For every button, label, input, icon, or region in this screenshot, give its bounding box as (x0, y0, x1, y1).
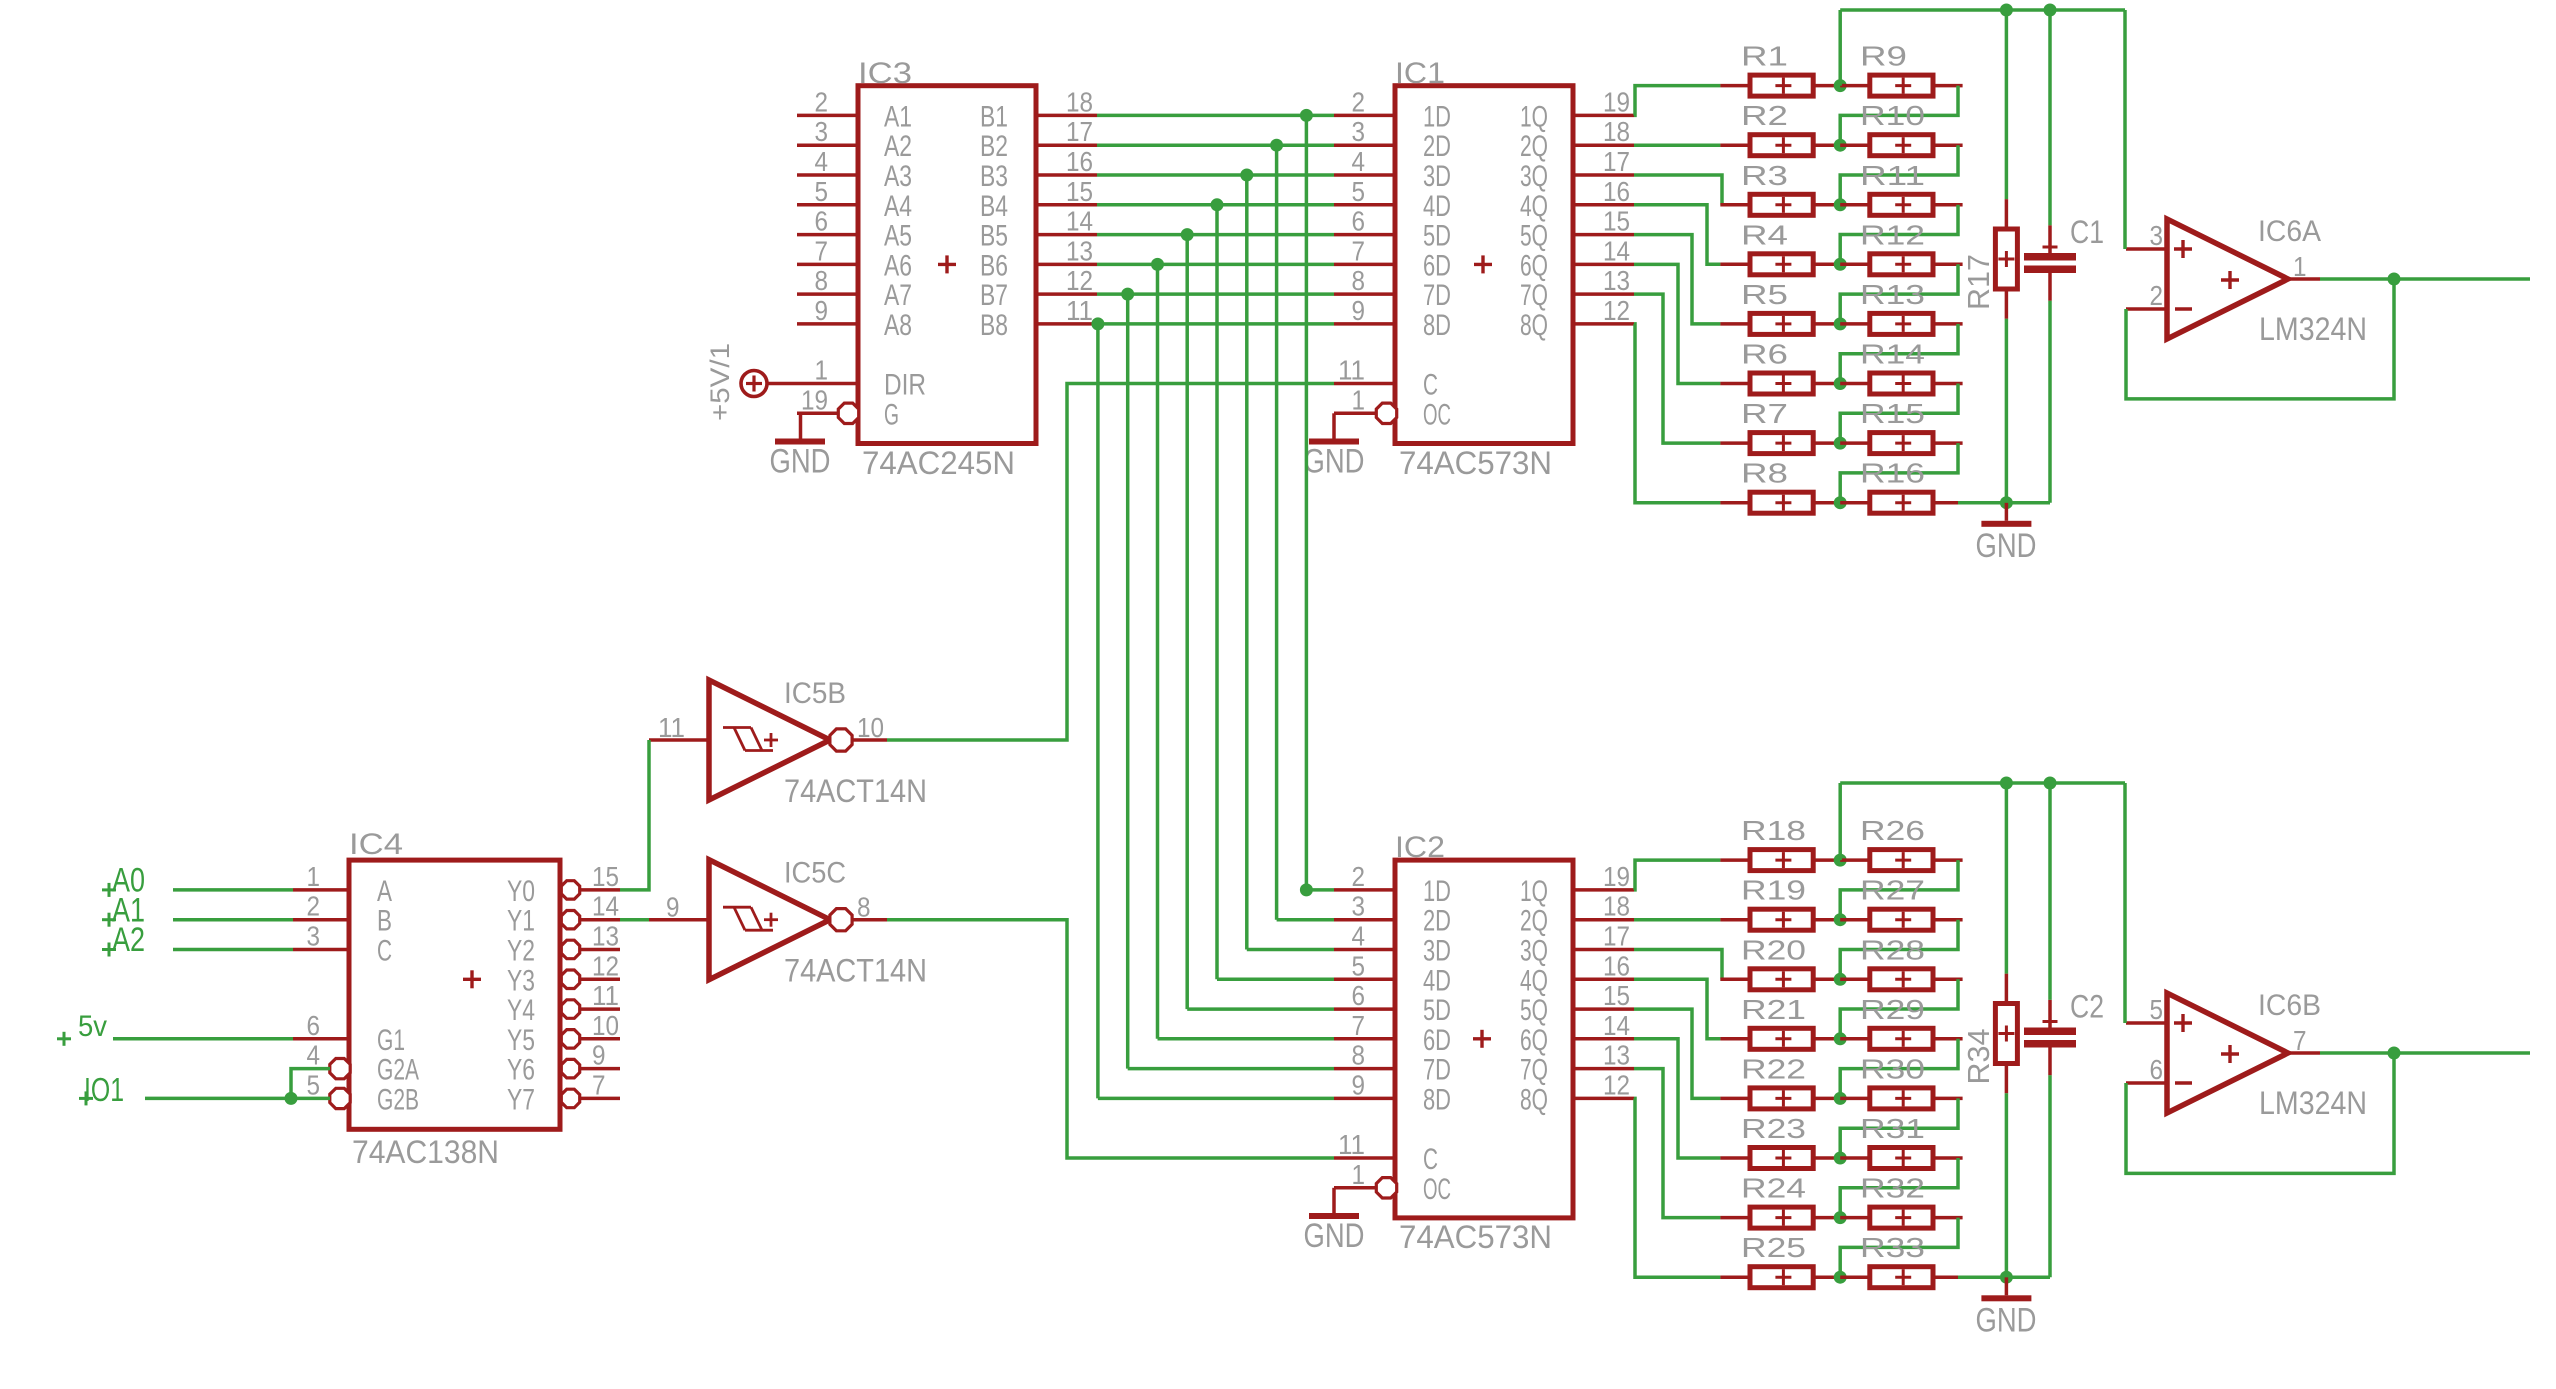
svg-text:2: 2 (1352, 86, 1366, 117)
svg-text:B4: B4 (980, 190, 1008, 223)
svg-text:7: 7 (1352, 1010, 1366, 1041)
svg-text:1Q: 1Q (1520, 875, 1548, 908)
svg-text:R18: R18 (1741, 815, 1806, 846)
svg-text:GND: GND (1304, 443, 1365, 481)
svg-text:A4: A4 (884, 190, 912, 223)
svg-text:R31: R31 (1860, 1113, 1925, 1144)
svg-text:6: 6 (2150, 1054, 2164, 1085)
svg-text:R15: R15 (1860, 398, 1925, 429)
svg-text:A: A (377, 875, 392, 908)
svg-text:12: 12 (592, 950, 619, 981)
svg-text:8: 8 (1352, 265, 1366, 296)
svg-text:11: 11 (1338, 1129, 1365, 1160)
svg-text:R21: R21 (1741, 994, 1806, 1025)
svg-text:6: 6 (1352, 980, 1366, 1011)
svg-text:Y1: Y1 (507, 905, 535, 938)
svg-text:GND: GND (770, 443, 831, 481)
svg-text:17: 17 (1603, 921, 1630, 952)
svg-text:OC: OC (1423, 1173, 1451, 1206)
svg-text:R32: R32 (1860, 1173, 1925, 1204)
svg-text:19: 19 (801, 384, 828, 415)
svg-text:13: 13 (1066, 235, 1093, 266)
svg-text:R7: R7 (1741, 398, 1788, 429)
svg-text:13: 13 (592, 921, 619, 952)
svg-text:R9: R9 (1860, 41, 1907, 72)
svg-text:16: 16 (1603, 176, 1630, 207)
svg-text:Y3: Y3 (507, 964, 535, 997)
svg-text:B: B (377, 905, 392, 938)
svg-text:7: 7 (2293, 1025, 2307, 1056)
svg-text:R4: R4 (1741, 219, 1788, 250)
svg-text:11: 11 (592, 980, 619, 1011)
svg-text:IC1: IC1 (1395, 57, 1445, 90)
svg-text:8: 8 (1352, 1040, 1366, 1071)
svg-text:4Q: 4Q (1520, 964, 1548, 997)
svg-text:IO1: IO1 (84, 1071, 124, 1108)
svg-text:19: 19 (1603, 86, 1630, 117)
svg-text:3: 3 (2150, 220, 2164, 251)
svg-text:6D: 6D (1423, 1024, 1451, 1057)
svg-text:B5: B5 (980, 220, 1008, 253)
svg-text:8D: 8D (1423, 1083, 1451, 1116)
svg-text:GND: GND (1304, 1217, 1365, 1255)
svg-text:4: 4 (307, 1040, 321, 1071)
svg-text:1: 1 (2293, 251, 2307, 282)
svg-text:1D: 1D (1423, 100, 1451, 133)
svg-text:15: 15 (1603, 980, 1630, 1011)
svg-text:4: 4 (815, 146, 829, 177)
svg-text:7: 7 (815, 235, 829, 266)
svg-text:Y7: Y7 (507, 1083, 535, 1116)
svg-text:IC6A: IC6A (2258, 215, 2321, 248)
svg-text:R34: R34 (1961, 1029, 1996, 1085)
svg-text:C: C (377, 935, 392, 968)
svg-text:R28: R28 (1860, 934, 1925, 965)
svg-text:3Q: 3Q (1520, 935, 1548, 968)
svg-text:R19: R19 (1741, 875, 1806, 906)
svg-text:G: G (884, 398, 899, 431)
svg-text:6: 6 (307, 1010, 321, 1041)
svg-text:11: 11 (1338, 355, 1365, 386)
svg-text:G2B: G2B (377, 1083, 419, 1116)
svg-text:R1: R1 (1741, 41, 1788, 72)
svg-text:3: 3 (307, 921, 321, 952)
svg-text:8Q: 8Q (1520, 309, 1548, 342)
svg-text:5: 5 (1352, 950, 1366, 981)
svg-text:9: 9 (1352, 1069, 1366, 1100)
svg-text:R3: R3 (1741, 160, 1788, 191)
svg-text:74AC245N: 74AC245N (862, 445, 1015, 481)
svg-text:15: 15 (1066, 176, 1093, 207)
svg-text:Y4: Y4 (507, 994, 535, 1027)
svg-text:OC: OC (1423, 398, 1451, 431)
svg-text:12: 12 (1603, 1069, 1630, 1100)
svg-text:15: 15 (1603, 206, 1630, 237)
svg-text:9: 9 (815, 295, 829, 326)
svg-text:4D: 4D (1423, 190, 1451, 223)
svg-text:R12: R12 (1860, 219, 1925, 250)
svg-text:6: 6 (1352, 206, 1366, 237)
svg-text:8: 8 (857, 892, 871, 923)
svg-text:A1: A1 (884, 100, 912, 133)
svg-text:R16: R16 (1860, 458, 1925, 489)
svg-text:19: 19 (1603, 861, 1630, 892)
svg-text:11: 11 (1066, 295, 1093, 326)
svg-text:8D: 8D (1423, 309, 1451, 342)
svg-text:R8: R8 (1741, 458, 1788, 489)
svg-text:5Q: 5Q (1520, 220, 1548, 253)
svg-text:10: 10 (857, 712, 884, 743)
svg-text:15: 15 (592, 861, 619, 892)
svg-text:2: 2 (2150, 280, 2164, 311)
svg-text:IC3: IC3 (858, 57, 912, 90)
svg-text:1: 1 (1352, 384, 1366, 415)
svg-text:B1: B1 (980, 100, 1008, 133)
svg-text:R6: R6 (1741, 339, 1788, 370)
svg-text:11: 11 (658, 712, 685, 743)
svg-text:8Q: 8Q (1520, 1083, 1548, 1116)
svg-text:14: 14 (1603, 1010, 1630, 1041)
svg-text:A5: A5 (884, 220, 912, 253)
svg-text:7Q: 7Q (1520, 1054, 1548, 1087)
svg-text:R14: R14 (1860, 339, 1925, 370)
svg-text:8: 8 (815, 265, 829, 296)
svg-text:R10: R10 (1860, 100, 1925, 131)
svg-text:74ACT14N: 74ACT14N (784, 773, 927, 809)
svg-text:3D: 3D (1423, 935, 1451, 968)
svg-text:2: 2 (1352, 861, 1366, 892)
svg-text:6D: 6D (1423, 249, 1451, 282)
svg-text:R5: R5 (1741, 279, 1788, 310)
svg-text:18: 18 (1603, 116, 1630, 147)
svg-text:A3: A3 (884, 160, 912, 193)
svg-text:1: 1 (1352, 1159, 1366, 1190)
svg-text:13: 13 (1603, 1040, 1630, 1071)
svg-text:14: 14 (1066, 206, 1093, 237)
svg-text:7Q: 7Q (1520, 279, 1548, 312)
svg-text:C: C (1423, 369, 1438, 402)
svg-text:A2: A2 (884, 130, 912, 163)
svg-text:74AC573N: 74AC573N (1399, 445, 1552, 481)
svg-text:7: 7 (592, 1069, 606, 1100)
svg-text:R11: R11 (1860, 160, 1925, 191)
svg-text:4Q: 4Q (1520, 190, 1548, 223)
svg-text:A8: A8 (884, 309, 912, 342)
svg-text:6Q: 6Q (1520, 1024, 1548, 1057)
svg-text:18: 18 (1066, 86, 1093, 117)
svg-text:5: 5 (815, 176, 829, 207)
svg-text:IC5C: IC5C (784, 857, 846, 890)
svg-text:5: 5 (307, 1069, 321, 1100)
svg-text:13: 13 (1603, 265, 1630, 296)
svg-text:IC2: IC2 (1395, 831, 1445, 864)
svg-text:9: 9 (1352, 295, 1366, 326)
svg-text:74ACT14N: 74ACT14N (784, 953, 927, 989)
svg-text:GND: GND (1976, 1301, 2037, 1339)
svg-text:7D: 7D (1423, 1054, 1451, 1087)
svg-text:R27: R27 (1860, 875, 1925, 906)
svg-text:9: 9 (666, 892, 680, 923)
svg-text:3D: 3D (1423, 160, 1451, 193)
svg-text:R22: R22 (1741, 1053, 1806, 1084)
svg-text:14: 14 (592, 891, 619, 922)
svg-text:A2: A2 (112, 921, 145, 959)
svg-text:2Q: 2Q (1520, 905, 1548, 938)
svg-text:3Q: 3Q (1520, 160, 1548, 193)
svg-text:G2A: G2A (377, 1054, 419, 1087)
svg-text:4: 4 (1352, 921, 1366, 952)
svg-text:5Q: 5Q (1520, 994, 1548, 1027)
svg-text:B6: B6 (980, 249, 1008, 282)
svg-text:2Q: 2Q (1520, 130, 1548, 163)
svg-text:R13: R13 (1860, 279, 1925, 310)
svg-text:2D: 2D (1423, 905, 1451, 938)
svg-text:4: 4 (1352, 146, 1366, 177)
svg-text:A6: A6 (884, 249, 912, 282)
svg-text:Y6: Y6 (507, 1054, 535, 1087)
svg-text:17: 17 (1603, 146, 1630, 177)
svg-text:5v: 5v (78, 1010, 107, 1043)
svg-text:16: 16 (1603, 950, 1630, 981)
svg-text:LM324N: LM324N (2259, 311, 2367, 347)
svg-text:14: 14 (1603, 235, 1630, 266)
svg-text:18: 18 (1603, 891, 1630, 922)
svg-text:17: 17 (1066, 116, 1093, 147)
svg-text:C2: C2 (2070, 989, 2104, 1025)
svg-text:GND: GND (1976, 527, 2037, 565)
svg-text:1: 1 (815, 355, 829, 386)
svg-text:5: 5 (1352, 176, 1366, 207)
svg-text:R30: R30 (1860, 1053, 1925, 1084)
svg-text:R2: R2 (1741, 100, 1788, 131)
svg-text:74AC138N: 74AC138N (352, 1134, 499, 1170)
svg-text:LM324N: LM324N (2259, 1085, 2367, 1121)
svg-text:R29: R29 (1860, 994, 1925, 1025)
svg-text:+5V/1: +5V/1 (705, 343, 735, 421)
svg-text:3: 3 (1352, 116, 1366, 147)
svg-text:1: 1 (307, 861, 321, 892)
svg-text:Y2: Y2 (507, 935, 535, 968)
svg-text:Y0: Y0 (507, 875, 535, 908)
svg-text:16: 16 (1066, 146, 1093, 177)
svg-text:A7: A7 (884, 279, 912, 312)
svg-text:5D: 5D (1423, 994, 1451, 1027)
svg-text:2D: 2D (1423, 130, 1451, 163)
svg-text:2: 2 (815, 86, 829, 117)
svg-text:B8: B8 (980, 309, 1008, 342)
svg-text:IC5B: IC5B (784, 677, 846, 710)
svg-text:5: 5 (2150, 994, 2164, 1025)
svg-text:Y5: Y5 (507, 1024, 535, 1057)
svg-text:IC6B: IC6B (2258, 989, 2321, 1022)
svg-text:G1: G1 (377, 1024, 405, 1057)
svg-text:B7: B7 (980, 279, 1008, 312)
svg-text:6: 6 (815, 206, 829, 237)
svg-text:R24: R24 (1741, 1173, 1806, 1204)
svg-text:3: 3 (815, 116, 829, 147)
svg-text:IC4: IC4 (349, 828, 403, 861)
svg-text:74AC573N: 74AC573N (1399, 1219, 1552, 1255)
svg-text:4D: 4D (1423, 964, 1451, 997)
svg-text:12: 12 (1066, 265, 1093, 296)
svg-text:C1: C1 (2070, 214, 2104, 250)
svg-text:R23: R23 (1741, 1113, 1806, 1144)
svg-text:B3: B3 (980, 160, 1008, 193)
svg-text:6Q: 6Q (1520, 249, 1548, 282)
svg-text:R26: R26 (1860, 815, 1925, 846)
svg-text:1D: 1D (1423, 875, 1451, 908)
svg-text:2: 2 (307, 891, 321, 922)
svg-text:3: 3 (1352, 891, 1366, 922)
svg-text:C: C (1423, 1143, 1438, 1176)
svg-text:1Q: 1Q (1520, 100, 1548, 133)
svg-text:5D: 5D (1423, 220, 1451, 253)
svg-text:B2: B2 (980, 130, 1008, 163)
svg-text:7D: 7D (1423, 279, 1451, 312)
svg-text:R25: R25 (1741, 1232, 1806, 1263)
svg-text:R17: R17 (1961, 254, 1996, 310)
svg-text:9: 9 (592, 1040, 606, 1071)
svg-text:10: 10 (592, 1010, 619, 1041)
svg-text:7: 7 (1352, 235, 1366, 266)
svg-text:R20: R20 (1741, 934, 1806, 965)
svg-text:DIR: DIR (884, 369, 926, 402)
svg-text:12: 12 (1603, 295, 1630, 326)
svg-text:R33: R33 (1860, 1232, 1925, 1263)
